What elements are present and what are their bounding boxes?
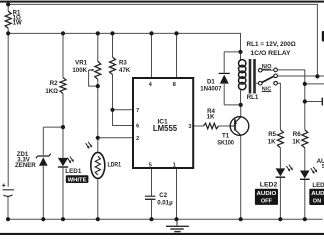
svg-text:1K: 1K xyxy=(292,138,300,145)
svg-text:AUDIO: AUDIO xyxy=(257,191,278,197)
svg-text:R6: R6 xyxy=(293,131,301,138)
svg-text:1KΩ: 1KΩ xyxy=(45,88,58,95)
svg-text:LED2: LED2 xyxy=(260,181,278,188)
svg-text:1K: 1K xyxy=(207,114,215,121)
svg-text:SK100: SK100 xyxy=(217,139,234,146)
svg-text:1: 1 xyxy=(173,163,176,169)
svg-text:LED3: LED3 xyxy=(312,182,324,189)
svg-text:1C/O RELAY: 1C/O RELAY xyxy=(250,50,291,57)
svg-text:OFF: OFF xyxy=(261,199,273,205)
svg-text:2: 2 xyxy=(136,136,139,142)
svg-text:RL1: RL1 xyxy=(247,94,259,101)
svg-text:VR1: VR1 xyxy=(75,59,87,66)
svg-text:ON: ON xyxy=(313,199,321,205)
svg-text:R3: R3 xyxy=(119,59,127,66)
svg-text:47K: 47K xyxy=(119,67,131,74)
svg-text:LM555: LM555 xyxy=(153,124,178,133)
svg-text:5: 5 xyxy=(149,163,152,169)
svg-text:1N4007: 1N4007 xyxy=(200,85,222,92)
svg-text:1W: 1W xyxy=(13,20,22,27)
svg-text:WHITE: WHITE xyxy=(68,177,87,183)
svg-text:R2: R2 xyxy=(50,80,58,87)
svg-text:3: 3 xyxy=(188,124,191,130)
svg-text:7: 7 xyxy=(136,108,139,114)
svg-text:1K: 1K xyxy=(268,138,276,145)
svg-text:100K: 100K xyxy=(72,67,87,74)
svg-text:D1: D1 xyxy=(207,78,215,85)
svg-text:RL1 = 12V, 200Ω: RL1 = 12V, 200Ω xyxy=(247,41,296,48)
svg-text:8: 8 xyxy=(173,82,176,88)
svg-text:ZENER: ZENER xyxy=(15,162,36,169)
svg-text:R5: R5 xyxy=(268,131,276,138)
svg-text:AUDIO: AUDIO xyxy=(311,191,324,197)
svg-text:0.01µ: 0.01µ xyxy=(157,200,173,207)
svg-text:LED1: LED1 xyxy=(65,168,82,175)
svg-text:LDR1: LDR1 xyxy=(108,162,122,169)
svg-text:C2: C2 xyxy=(159,192,167,199)
svg-text:6: 6 xyxy=(136,124,139,130)
